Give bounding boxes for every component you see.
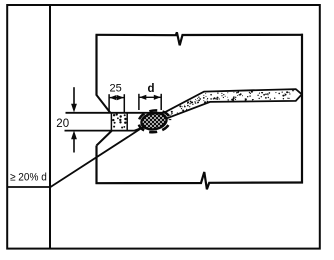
dim 25 line — [109, 97, 124, 99]
leader line — [7, 129, 141, 187]
plate upper chamfer — [97, 95, 111, 113]
dim 25 tick left — [108, 94, 110, 112]
dim d tick left — [138, 94, 140, 110]
strap bottom edge — [135, 94, 302, 130]
strap top edge — [164, 89, 302, 113]
plate lower chamfer — [97, 131, 113, 146]
dim d line — [139, 96, 161, 98]
dim d tick right — [160, 94, 162, 110]
dim 25 tick right — [123, 94, 125, 112]
grout square left edge — [110, 113, 112, 131]
dim 20 top arrow — [71, 104, 77, 113]
svg-text:d: d — [148, 83, 155, 95]
slot top edge — [66, 112, 164, 114]
weld blob — [140, 111, 168, 131]
dim 20 top shaft — [73, 87, 75, 105]
svg-text:≥ 20% d: ≥ 20% d — [10, 171, 47, 183]
svg-text:20: 20 — [56, 118, 69, 130]
grout square stipple — [112, 113, 127, 128]
wall line — [49, 4, 51, 249]
dim d arrow right — [154, 95, 161, 100]
strap stipple — [170, 90, 294, 116]
plate outline left upper edge — [95, 35, 97, 96]
dim 25 arrow right — [117, 95, 124, 100]
dim d arrow left — [139, 95, 146, 100]
dim 20 bottom shaft — [73, 138, 75, 153]
dim 25 arrow left — [110, 95, 117, 100]
grout square right edge — [126, 113, 128, 131]
svg-text:25: 25 — [110, 82, 122, 94]
weld blob crosshatch — [116, 105, 194, 135]
plate bottom edge with lightning break — [96, 172, 304, 189]
slot bottom edge — [65, 130, 135, 132]
dashed ellipse — [137, 108, 171, 134]
dim 20 bottom arrow — [71, 131, 77, 140]
plate right edge — [301, 34, 303, 184]
plate left lower edge — [95, 146, 97, 185]
plate top edge with V break — [96, 32, 304, 45]
